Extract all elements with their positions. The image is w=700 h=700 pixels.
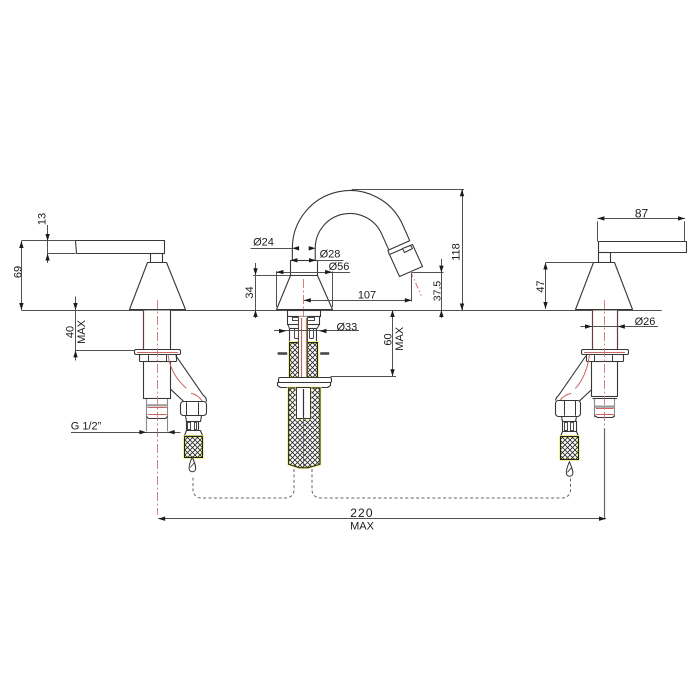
center inner tube (pink/tan) — [299, 317, 308, 378]
center mounting flange — [279, 378, 332, 383]
svg-text:37,5: 37,5 — [432, 281, 444, 302]
right hose hex fitting — [556, 401, 581, 417]
left handle mounting hex nut — [140, 355, 177, 362]
dimension Ø56 — [276, 272, 350, 274]
spout base cone (Ø56) — [277, 276, 333, 310]
svg-text:118: 118 — [451, 243, 463, 261]
left hose dashed routing — [193, 469, 294, 498]
dimension Ø24 — [251, 248, 293, 250]
dimension 107 — [304, 300, 412, 302]
right handle lever — [599, 242, 687, 253]
dimension 60 MAX — [392, 310, 394, 376]
right handle red centerline — [604, 300, 606, 426]
center red centerline — [303, 279, 305, 317]
right handle valve body — [592, 362, 618, 397]
dimension G 1/2" — [71, 432, 180, 434]
spout collar (Ø28 escutcheon) — [291, 261, 318, 276]
right hose end drop — [566, 462, 573, 476]
dimension 13 extension lines — [21, 240, 75, 242]
svg-text:Ø24: Ø24 — [253, 237, 274, 249]
dimension 37,5 extension lines — [412, 272, 444, 274]
dimension 87 extension lines — [597, 221, 599, 241]
svg-text:40: 40 — [65, 326, 77, 338]
left hose end drop — [189, 457, 196, 472]
left handle shank below deck — [144, 311, 171, 351]
left hose crimp neck — [186, 416, 202, 422]
dimension 87 — [597, 218, 685, 220]
svg-text:107: 107 — [358, 289, 376, 301]
right handle outlet branch tube — [558, 356, 586, 396]
dimension 47 — [545, 263, 547, 310]
spout gooseneck tube — [304, 202, 399, 261]
svg-text:60: 60 — [383, 333, 395, 345]
center upper braided hose — [290, 343, 318, 378]
right handle cone base — [576, 263, 633, 310]
dimension 69 — [21, 241, 23, 310]
dimension 34 — [255, 263, 257, 318]
svg-text:MAX: MAX — [394, 326, 406, 351]
svg-text:13: 13 — [36, 213, 48, 225]
dimension 13 — [47, 225, 49, 263]
center lower braided hose — [289, 388, 320, 468]
left hose hex fitting — [181, 402, 207, 416]
dimension Ø28 — [316, 260, 344, 262]
left handle lever — [76, 241, 165, 254]
svg-text:87: 87 — [635, 207, 649, 221]
center mounting nut top band (Ø33) — [288, 311, 321, 317]
dimension 40 MAX — [75, 297, 77, 361]
dimension 118 — [462, 189, 464, 310]
center nut taper — [288, 324, 290, 329]
right handle shank below deck — [593, 311, 618, 350]
svg-text:69: 69 — [12, 266, 24, 278]
right handle mounting hex nut — [587, 355, 624, 362]
dimension 34 extension — [253, 275, 290, 277]
svg-text:220: 220 — [350, 506, 374, 520]
left handle stem — [151, 254, 163, 263]
center nut castellated band — [288, 317, 320, 325]
svg-text:34: 34 — [244, 286, 256, 298]
left handle outlet branch tube — [176, 355, 204, 395]
deck line (mounting surface) — [21, 310, 661, 312]
right hose dashed routing — [312, 469, 571, 498]
center side tabs — [278, 352, 288, 355]
dimension Ø33 — [274, 330, 359, 332]
svg-text:Ø28: Ø28 — [320, 249, 341, 261]
svg-text:MAX: MAX — [76, 319, 88, 344]
left handle cone base — [130, 263, 186, 310]
right handle stem — [599, 253, 611, 263]
right handle mounting flange — [582, 350, 629, 355]
svg-text:47: 47 — [535, 280, 547, 292]
right handle G1/2 threaded end — [595, 399, 615, 418]
right handle gray centerline extension — [604, 428, 606, 519]
dimension 60 MAX extension — [331, 376, 397, 378]
dimension 37,5 — [441, 259, 443, 318]
right hose braided section — [561, 437, 579, 460]
center nut lower slotted section — [290, 329, 317, 344]
svg-text:Ø56: Ø56 — [329, 261, 350, 273]
dimension 220 MAX — [158, 518, 606, 520]
right hose crimp neck — [562, 417, 577, 422]
dimension 40 MAX extension — [76, 350, 136, 352]
left handle G1/2 threaded inlet — [147, 399, 168, 432]
svg-text:MAX: MAX — [350, 521, 375, 533]
left handle red centerline — [157, 300, 159, 515]
svg-text:Ø33: Ø33 — [337, 322, 358, 334]
aerator axis red centerline — [411, 271, 422, 295]
left hose braided section — [185, 437, 203, 458]
dimension 118 extension — [352, 189, 464, 191]
left handle valve body — [144, 362, 171, 399]
dimension 47 extension — [546, 262, 594, 264]
svg-text:Ø26: Ø26 — [635, 316, 656, 328]
dimension Ø56 extension lines — [276, 271, 278, 307]
spout aerator head — [390, 245, 423, 277]
left handle mounting flange — [135, 350, 181, 355]
svg-text:G 1/2”: G 1/2” — [71, 421, 102, 433]
dimension Ø26 — [581, 326, 659, 328]
